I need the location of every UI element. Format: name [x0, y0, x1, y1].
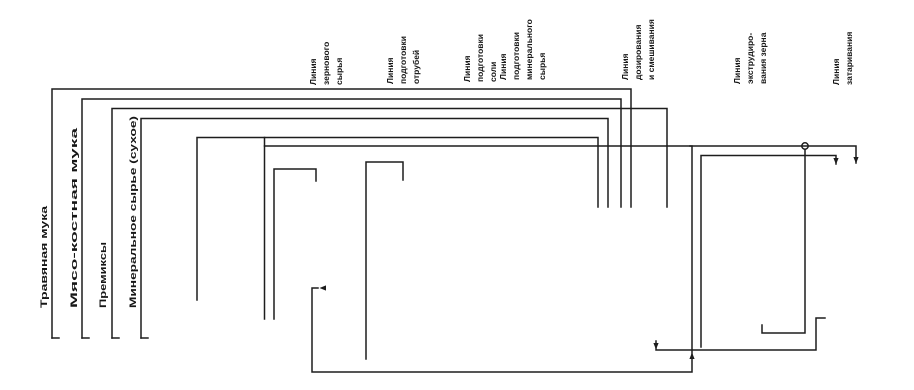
svg-text:Травяная мука: Травяная мука [39, 205, 50, 308]
wire bus2 bottom hook [82, 337, 89, 339]
wire big return loop [265, 146, 693, 372]
wire bus1 bottom hook [52, 337, 59, 339]
svg-text:Линия: Линия [620, 53, 630, 80]
node junction circle [802, 143, 808, 149]
wire otrubi feed riser [366, 162, 403, 359]
svg-text:Мясо-костная мука: Мясо-костная мука [69, 127, 80, 308]
svg-text:подготовки: подготовки [398, 36, 408, 84]
wire to bagging silos with junction circle [690, 146, 856, 163]
arrowhead into crusher inlet [320, 285, 327, 290]
wire bus3 bottom hook [112, 337, 119, 339]
wire zerno silos riser to salt bus [264, 138, 266, 320]
svg-text:вания зерна: вания зерна [758, 32, 768, 84]
svg-text:Линия: Линия [831, 58, 841, 85]
wire extruder section feed [701, 156, 836, 348]
svg-text:подготовки: подготовки [511, 32, 521, 80]
svg-text:Линия: Линия [385, 57, 395, 84]
svg-text:дозирования: дозирования [633, 24, 643, 80]
svg-text:Премиксы: Премиксы [98, 242, 109, 308]
svg-text:подготовки: подготовки [475, 34, 485, 82]
arrowhead mixer out down [653, 343, 658, 350]
svg-text:экструдиро-: экструдиро- [745, 33, 755, 84]
wire bus2 мясо-костная [82, 99, 621, 338]
svg-text:минерального: минерального [524, 19, 534, 80]
wire mixer output conveyor [656, 318, 825, 350]
arrowhead big loop up tick [689, 353, 694, 360]
svg-text:Минеральное сырье (сухое): Минеральное сырье (сухое) [128, 116, 139, 308]
wire bus3 премиксы [112, 109, 667, 339]
svg-text:соли: соли [488, 62, 498, 82]
svg-text:сырья: сырья [334, 58, 344, 85]
svg-text:и смешивания: и смешивания [646, 19, 656, 80]
svg-text:затаривания: затаривания [844, 32, 854, 85]
wire extruder output riser [762, 150, 805, 334]
svg-text:отрубей: отрубей [411, 50, 421, 84]
svg-text:Линия: Линия [462, 55, 472, 82]
arrowhead into Экструдат silo [853, 157, 858, 164]
svg-text:Линия: Линия [308, 58, 318, 85]
svg-text:зернового: зернового [321, 42, 331, 85]
wire separator feed riser [274, 169, 316, 319]
svg-text:Линия: Линия [498, 53, 508, 80]
wire bus4 bottom hook [141, 337, 148, 339]
wire bus1 травяная мука [52, 89, 631, 338]
svg-text:Линия: Линия [732, 57, 742, 84]
wire salt bus [197, 138, 598, 301]
wire bus4 минеральное [141, 119, 608, 339]
arrowhead into БВМД silo [833, 158, 838, 165]
svg-text:сырья: сырья [537, 53, 547, 80]
